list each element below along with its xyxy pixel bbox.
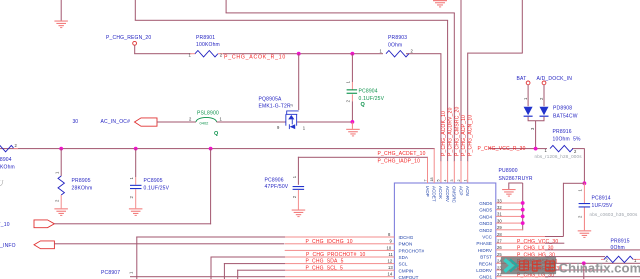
ground under PC8914 <box>578 208 592 238</box>
pin 29 GND2 <box>479 225 523 233</box>
svg-text:PR8901: PR8901 <box>196 35 215 41</box>
svg-text:P_CHG_ACOK_10: P_CHG_ACOK_10 <box>441 111 447 156</box>
capacitor PC8905 0.1UF/25V <box>129 149 169 209</box>
svg-text:P_CHG_REGN_20: P_CHG_REGN_20 <box>106 35 151 41</box>
IC U8900 box <box>394 168 533 279</box>
pin 23 LODRV <box>476 265 605 278</box>
svg-text:47PF/50V: 47PF/50V <box>265 184 289 190</box>
wire top edge to CMSRC bus <box>226 0 455 13</box>
bus P_CHG_ACN_10 vertical <box>467 53 474 183</box>
svg-text:13: 13 <box>388 265 393 270</box>
svg-text:PR8916: PR8916 <box>553 129 572 135</box>
svg-text:P_CHG_ACDET_10: P_CHG_ACDET_10 <box>378 151 426 157</box>
resistor PR8904 (cut at left edge) <box>0 143 18 171</box>
port AC_IN_OC# <box>73 118 158 126</box>
svg-text:27: 27 <box>497 239 502 244</box>
svg-text:4: 4 <box>443 180 447 182</box>
capacitor PC8906 47PF/50V <box>265 157 305 210</box>
svg-text:1: 1 <box>128 271 133 274</box>
svg-text:2: 2 <box>578 215 583 218</box>
svg-text:BAT: BAT <box>517 76 527 82</box>
svg-text:2: 2 <box>292 195 297 198</box>
svg-text:2: 2 <box>457 180 461 182</box>
svg-text:GND1: GND1 <box>479 275 492 279</box>
svg-text:PSL8900: PSL8900 <box>197 110 219 116</box>
svg-text:P_CHG_CMSRC_20: P_CHG_CMSRC_20 <box>454 106 460 156</box>
ground under PR8905 <box>54 208 68 216</box>
svg-text:30: 30 <box>73 119 79 125</box>
svg-text:30: 30 <box>497 218 502 223</box>
pin 9 PMON <box>285 239 412 247</box>
capacitor PC8914 1UF/25V <box>578 183 638 218</box>
svg-text:11: 11 <box>389 252 394 257</box>
svg-text:nbs_c0603_h35_000s: nbs_c0603_h35_000s <box>590 212 638 217</box>
svg-text:PMON: PMON <box>399 242 413 247</box>
svg-text:28KOhm: 28KOhm <box>72 186 93 192</box>
pin 27 PHASE <box>476 239 564 252</box>
svg-text:IADP: IADP <box>425 186 430 197</box>
svg-text:PC8906: PC8906 <box>265 178 284 184</box>
svg-text:1: 1 <box>380 49 383 54</box>
pin 8 IDCHG <box>136 232 413 279</box>
svg-text:7: 7 <box>423 180 427 182</box>
svg-text:PR8903: PR8903 <box>388 35 407 41</box>
resistor PR8901 100KOhm <box>189 35 224 58</box>
svg-text:nbs_r1206_h28_000s: nbs_r1206_h28_000s <box>535 154 583 159</box>
dual diode PD8908 BAT54CW <box>524 105 578 148</box>
pin 10 PROCHOT# <box>285 245 425 258</box>
svg-text:PR8905: PR8905 <box>72 178 91 184</box>
svg-text:CMPOUT: CMPOUT <box>399 275 419 279</box>
svg-text:U: U <box>0 180 4 188</box>
svg-text:10Ohm 5%: 10Ohm 5% <box>553 137 582 143</box>
wire P_CHG_ACOK_R_10 <box>223 53 441 60</box>
svg-text:0Ohm: 0Ohm <box>388 43 402 49</box>
svg-text:ACN: ACN <box>465 186 470 196</box>
ground under PC8904 <box>346 122 360 136</box>
pin 14 CMPOUT <box>130 272 419 279</box>
svg-text:PD8908: PD8908 <box>553 105 572 111</box>
wire Q8905 to cap node <box>297 122 352 123</box>
svg-text:P_CHG_VCC_30: P_CHG_VCC_30 <box>517 239 558 245</box>
pin ACOK top <box>437 180 444 200</box>
svg-text:100KOhm: 100KOhm <box>196 42 220 48</box>
svg-text:CMSRC: CMSRC <box>452 186 457 204</box>
transistor PQ8905A EMK1-G-T2R <box>259 96 306 130</box>
svg-text:100KOhm: 100KOhm <box>0 164 15 170</box>
resistor PR8903 0Ohm <box>380 35 414 57</box>
svg-text:PR8904: PR8904 <box>0 157 12 163</box>
svg-text:VCC: VCC <box>482 235 492 240</box>
svg-text:GND6: GND6 <box>479 201 492 206</box>
svg-text:0Ohm: 0Ohm <box>611 245 625 251</box>
svg-text:HIDRV: HIDRV <box>478 248 493 253</box>
svg-text:GND2: GND2 <box>479 228 492 233</box>
ground under PC8906 <box>292 210 306 218</box>
pin 13 CMPIN <box>237 265 413 279</box>
wire AC_IN to fuse <box>157 122 196 123</box>
ground top-middle (cut at top edge) <box>433 0 447 7</box>
wire VCC branch to pin28 <box>563 183 585 237</box>
svg-text:1: 1 <box>578 189 583 192</box>
svg-text:3: 3 <box>450 180 454 182</box>
junction cap/wire/ground <box>351 120 355 124</box>
capacitor PC8907 (cut at bottom) <box>101 270 133 276</box>
pin 28 VCC <box>482 232 563 245</box>
svg-text:P_CHG_ACDRV_20: P_CHG_ACDRV_20 <box>448 107 454 156</box>
svg-text:10: 10 <box>387 245 392 250</box>
wire REGN to PR8901 <box>134 53 191 54</box>
svg-text:Q: Q <box>214 131 219 137</box>
svg-text:N: N <box>291 104 294 108</box>
pin 12 SCL <box>224 259 408 279</box>
svg-text:ACP: ACP <box>458 186 463 195</box>
svg-text:25: 25 <box>497 252 502 257</box>
svg-text:PHASE: PHASE <box>476 241 492 246</box>
junction VCC node <box>583 181 587 185</box>
svg-text:1: 1 <box>464 180 468 182</box>
svg-text:PC8904: PC8904 <box>359 89 378 95</box>
wire top-right from top edge <box>468 0 523 54</box>
svg-text:PQ8905A: PQ8905A <box>259 96 283 102</box>
port T_10 output <box>0 220 54 228</box>
wire GND bus vertical <box>522 183 523 230</box>
resistor PR8905 28KOhm <box>55 149 93 209</box>
svg-text:ACOK: ACOK <box>438 186 443 200</box>
pin ACN top <box>464 180 471 196</box>
svg-text:EMK1-G-T2R: EMK1-G-T2R <box>259 103 291 109</box>
svg-text:2: 2 <box>55 199 60 202</box>
watermark chinafix <box>501 257 640 276</box>
svg-text:2: 2 <box>411 49 414 54</box>
svg-text:PC8905: PC8905 <box>144 178 163 184</box>
pin IADP top <box>423 157 430 196</box>
svg-text:BAT54CW: BAT54CW <box>553 113 578 119</box>
bus P_CHG_CMSRC_20 vertical <box>454 13 461 183</box>
svg-text:2: 2 <box>346 99 351 102</box>
svg-text:CMPIN: CMPIN <box>399 268 414 273</box>
node P_CHG_REGN_20 terminal <box>106 35 151 54</box>
svg-text:1UF/25V: 1UF/25V <box>592 203 614 209</box>
wire port T_10 to bus <box>54 149 211 225</box>
svg-text:SN2867RUYR: SN2867RUYR <box>499 176 533 182</box>
ground under PC8905 <box>129 208 143 216</box>
svg-text:ACDRV: ACDRV <box>445 186 450 203</box>
svg-text:P_CHG_ACOK_R_10: P_CHG_ACOK_R_10 <box>224 55 286 61</box>
svg-text:BTST: BTST <box>480 255 492 260</box>
wire P_CHG_VCC_R_30 <box>478 146 585 152</box>
pin 22 GND1 <box>479 272 640 279</box>
svg-text:1: 1 <box>303 126 306 131</box>
svg-text:1: 1 <box>220 117 223 122</box>
left bus wire <box>0 148 435 149</box>
svg-text:Chinafix.com: Chinafix.com <box>559 261 640 276</box>
svg-text:SCL: SCL <box>399 262 408 267</box>
svg-text:REGN: REGN <box>479 261 492 266</box>
svg-text:ET_10: ET_10 <box>0 222 10 228</box>
junction PC8905 tap <box>134 147 138 151</box>
terminal BAT <box>517 76 530 106</box>
pin 26 HIDRV <box>478 245 640 258</box>
svg-text:2: 2 <box>15 143 18 148</box>
junction PR8905 tap <box>59 147 63 151</box>
svg-text:PU8900: PU8900 <box>499 168 518 174</box>
svg-text:ACDET: ACDET <box>432 186 437 202</box>
svg-text:31: 31 <box>497 212 502 217</box>
svg-text:1: 1 <box>292 175 297 178</box>
svg-text:18: 18 <box>430 178 434 182</box>
wire port _INFO to pin9 <box>54 243 284 244</box>
svg-text:PC8914: PC8914 <box>592 196 611 202</box>
pin ACDRV top <box>443 180 450 203</box>
pin ACP top <box>457 180 464 196</box>
svg-text:2: 2 <box>539 97 544 100</box>
bus P_CHG_ACDRV_20 vertical <box>447 20 454 183</box>
pin 32 GND5 <box>479 205 524 213</box>
ground top-left <box>54 0 68 28</box>
svg-text:8: 8 <box>388 232 391 237</box>
svg-text:32: 32 <box>497 205 502 210</box>
svg-text:9: 9 <box>390 239 393 244</box>
resistor PR8916 10Ohm <box>535 129 583 159</box>
junction pin24 branch <box>582 261 586 279</box>
svg-text:AC_IN_OC#: AC_IN_OC# <box>101 119 131 125</box>
svg-text:26: 26 <box>497 245 502 250</box>
svg-text:PR8915: PR8915 <box>611 239 630 245</box>
svg-text:P_CHG_ACN_10: P_CHG_ACN_10 <box>468 115 474 156</box>
pin 31 GND4 <box>479 212 524 220</box>
junction port tap <box>209 147 213 151</box>
svg-text:2: 2 <box>189 117 192 122</box>
svg-text:Q: Q <box>361 102 366 108</box>
pin 25 BTST <box>480 252 605 265</box>
bus P_CHG_ACP_10 vertical <box>461 0 468 183</box>
terminal A/D_DOCK_IN <box>537 76 573 106</box>
svg-text:P_CHG_IADP_10: P_CHG_IADP_10 <box>378 158 421 164</box>
svg-text:1: 1 <box>129 177 134 180</box>
resistor PR8915 0Ohm <box>601 239 640 263</box>
junction cap tap <box>351 52 355 56</box>
svg-text:28: 28 <box>497 232 502 237</box>
svg-text:GND4: GND4 <box>479 214 492 219</box>
svg-text:12: 12 <box>388 259 393 264</box>
port _INFO input <box>0 241 54 249</box>
svg-text:33: 33 <box>497 198 502 203</box>
svg-text:SDA: SDA <box>399 255 409 260</box>
wire cap PC8904 vertical <box>352 54 353 122</box>
pin 11 SDA <box>211 252 409 279</box>
svg-text:9: 9 <box>277 125 280 130</box>
svg-text:29: 29 <box>497 225 502 230</box>
ground IC right <box>502 183 523 197</box>
svg-text:P_CHG_VCC_R_30: P_CHG_VCC_R_30 <box>478 146 526 152</box>
svg-text:14: 14 <box>388 272 393 277</box>
svg-text:3: 3 <box>530 127 535 130</box>
svg-text:1: 1 <box>346 80 351 83</box>
svg-text:LODRV: LODRV <box>476 268 493 273</box>
svg-text:0402: 0402 <box>200 121 210 126</box>
capacitor PC8904 0.1UF/25V <box>346 80 385 108</box>
svg-text:GND3: GND3 <box>479 221 492 226</box>
wire IADP net <box>298 157 428 165</box>
pin 24 REGN <box>479 259 640 272</box>
junction diode/VCC_R <box>534 147 538 151</box>
wire fuse to Q8905 <box>217 122 286 123</box>
svg-text:2: 2 <box>129 196 134 199</box>
svg-text:IDCHG: IDCHG <box>399 235 414 240</box>
pin 30 GND3 <box>479 218 524 226</box>
wire gate vertical <box>298 54 299 110</box>
svg-text:2: 2 <box>574 149 577 154</box>
pin ACDET top <box>430 149 437 202</box>
svg-text:_INFO: _INFO <box>0 243 16 249</box>
svg-text:GND5: GND5 <box>479 208 492 213</box>
wire VCC_R corner down to cap node <box>584 149 585 184</box>
svg-text:P_CHG_ACP_10: P_CHG_ACP_10 <box>461 115 467 156</box>
bus P_CHG_ACOK_10 vertical <box>440 54 447 183</box>
svg-text:P_CHG_LX_30: P_CHG_LX_30 <box>517 246 554 252</box>
svg-text:PROCHOT#: PROCHOT# <box>399 248 425 253</box>
pin 33 GND6 <box>479 198 524 206</box>
pin CMSRC top <box>450 180 457 204</box>
junction gate tap <box>297 52 301 56</box>
svg-text:PC8907: PC8907 <box>101 270 120 276</box>
fuse PSL8900 <box>189 110 223 137</box>
svg-text:5: 5 <box>437 180 441 182</box>
svg-text:1: 1 <box>55 171 60 174</box>
svg-text:A/D_DOCK_IN: A/D_DOCK_IN <box>537 76 573 82</box>
svg-text:0.1UF/25V: 0.1UF/25V <box>144 186 170 192</box>
wire top edge to ACDRV bus <box>135 0 448 21</box>
svg-text:1: 1 <box>523 97 528 100</box>
